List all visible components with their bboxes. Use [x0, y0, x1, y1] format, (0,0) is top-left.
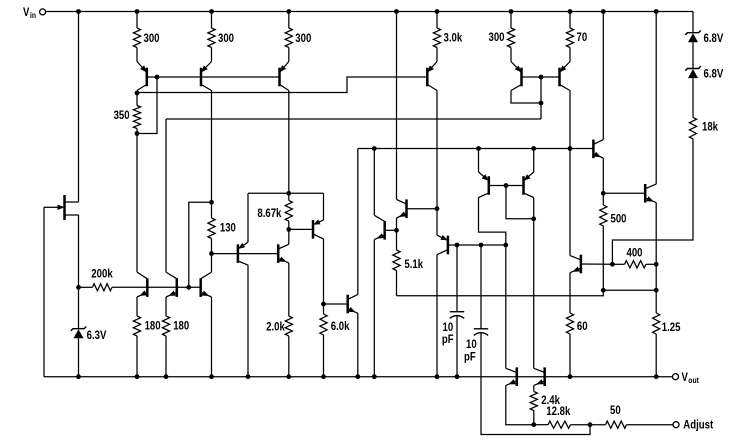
resistor R23 50 — [606, 403, 627, 428]
wire Q17m collector down to Q23 — [533, 198, 535, 369]
wire node line y148 — [358, 148, 594, 150]
node R8 bottom — [135, 131, 140, 136]
transistor Q5 PNP — [511, 62, 522, 91]
svg-text:130: 130 — [220, 221, 236, 235]
svg-text:200k: 200k — [91, 266, 113, 280]
svg-text:in: in — [30, 10, 36, 20]
wire Q22 collector — [505, 245, 507, 368]
wire Q13 emitter down — [357, 313, 359, 376]
resistor R11 200k — [91, 266, 113, 291]
node R18 left — [610, 262, 615, 267]
capacitor C1 10pF — [442, 245, 464, 377]
node R21 adjust — [531, 422, 536, 427]
transistor Q10 PNP — [238, 242, 248, 265]
wire Q11 collector up — [288, 229, 290, 244]
resistor R17 500 — [600, 193, 627, 290]
svg-text:400: 400 — [627, 245, 643, 259]
capacitor C2 10pF — [464, 245, 590, 435]
svg-text:V: V — [682, 370, 688, 384]
node Q1 collector — [135, 91, 140, 96]
node Q15 collector — [372, 146, 377, 151]
transistor Q6 PNP — [560, 62, 571, 91]
node R18 right — [654, 262, 659, 267]
node R9 bottom / Q10 base — [209, 251, 214, 256]
wire Q16 collector jog — [479, 198, 506, 246]
svg-text:V: V — [23, 5, 29, 19]
node R10 top — [286, 191, 291, 196]
wire cross line y119 — [166, 118, 541, 120]
wire R20 to ground — [655, 334, 657, 377]
wire Q18 base line — [448, 244, 506, 246]
wire R15 to ground — [323, 335, 325, 377]
wire base rail tap — [137, 77, 157, 134]
wire Q21 base — [603, 192, 645, 194]
svg-text:300: 300 — [144, 31, 160, 45]
node Q12 collector / Q13 base — [321, 302, 326, 307]
wire R14 to ground — [288, 336, 290, 377]
svg-text:500: 500 — [611, 212, 627, 226]
resistor R5 300 — [489, 12, 515, 62]
svg-text:3.0k: 3.0k — [444, 31, 463, 45]
wire Q10-Q11 base line — [212, 253, 279, 255]
wire Q17m emitter — [533, 149, 535, 173]
node R20 ground — [654, 374, 659, 379]
node Q14 base / Q4 collector — [435, 206, 440, 211]
wire top rail to D1 — [692, 12, 694, 34]
wire Q1 collector to R8 — [136, 91, 138, 106]
svg-text:70: 70 — [577, 30, 588, 44]
wire Q5 collector — [511, 91, 541, 104]
svg-text:8.67k: 8.67k — [257, 206, 281, 220]
node Q18 base / Q22 collector — [503, 243, 508, 248]
transistor Q22 NPN — [506, 367, 517, 386]
resistor R3 300 — [285, 12, 311, 62]
node R14 ground — [286, 374, 291, 379]
transistor Q8 NPN — [166, 272, 177, 297]
node C2 top — [479, 243, 484, 248]
wire Vout rail — [44, 376, 673, 378]
wire base tie down — [540, 77, 542, 119]
wire D1 to D2 — [692, 42, 694, 68]
transistor Q2 PNP — [201, 62, 212, 91]
svg-text:6.8V: 6.8V — [704, 67, 724, 81]
wire R19 to ground — [569, 334, 571, 377]
node D3 ground — [76, 374, 81, 379]
resistor R18 400 — [612, 245, 656, 268]
node 290 right — [654, 288, 659, 293]
wire J1 gate down to ground rail — [43, 207, 45, 376]
wire Q12 base — [289, 228, 313, 230]
svg-text:pF: pF — [442, 332, 454, 346]
terminal Adjust — [673, 418, 713, 432]
svg-text:out: out — [688, 375, 699, 385]
wire R10 box right to Q12 emitter — [323, 193, 325, 220]
transistor Q17m PNP — [524, 172, 534, 198]
transistor Q18 PNP — [437, 235, 448, 255]
wire Q5-Q6 base rail — [522, 76, 560, 78]
transistor J1 JFET — [44, 195, 79, 220]
wire mirror bases — [489, 185, 524, 187]
resistor R9 130 — [208, 202, 236, 253]
transistor Q3 PNP — [280, 62, 289, 91]
node C1 top — [455, 243, 460, 248]
resistor R22 12.8k — [546, 404, 570, 428]
node top rail junction x=603.3 — [601, 9, 606, 14]
wire R10 box left to Q10 emitter — [247, 193, 249, 242]
node R12 ground — [135, 374, 140, 379]
wire Q8 emitter to R13 — [165, 297, 167, 316]
wire Q15 base stub — [385, 229, 397, 231]
node Q16 emitter — [476, 146, 481, 151]
wire base rail y287 — [112, 286, 201, 288]
input terminal Vin — [23, 5, 46, 20]
node Q15 base — [394, 228, 399, 233]
wire R16 bottom to node 290 — [397, 290, 604, 296]
resistor R21 2.4k — [530, 392, 560, 411]
node Q19 emitter / R17 top — [601, 191, 606, 196]
transistor Q11 NPN — [278, 244, 289, 263]
svg-text:180: 180 — [145, 318, 161, 332]
wire R11 left — [79, 286, 93, 288]
wire Vin rail to Q14 collector — [396, 12, 398, 200]
wire Q4 collector to Q18 emitter — [436, 209, 438, 236]
zener D1 6.8V — [685, 31, 723, 46]
node R19 ground — [568, 374, 573, 379]
wire R10 box top — [248, 192, 324, 194]
node Q18 collector ground — [435, 374, 440, 379]
wire D2 to R7 — [692, 78, 694, 117]
wire Q18 collector to ground rail — [436, 255, 438, 377]
node R10 bottom / Q12 base — [286, 227, 291, 232]
transistor Q9 NPN — [201, 272, 212, 297]
transistor Q20 NPN — [570, 255, 581, 274]
resistor R16 5.1k — [393, 230, 423, 295]
wire R21 to Adjust rail — [533, 411, 535, 425]
svg-text:12.8k: 12.8k — [546, 404, 570, 418]
transistor Q19 NPN — [593, 140, 603, 159]
svg-text:180: 180 — [173, 318, 189, 332]
svg-text:Adjust: Adjust — [683, 418, 713, 432]
node R13 ground — [164, 374, 169, 379]
svg-text:6.0k: 6.0k — [331, 319, 350, 333]
transistor Q23 NPN — [534, 367, 545, 386]
wire Q7 emitter to R12 — [136, 297, 138, 316]
wire Q21 emitter down — [655, 203, 657, 265]
wire Q6 collector to Q20 collector — [569, 149, 571, 256]
wire Q11 emitter to R14 — [288, 263, 290, 316]
transistor Q7 NPN — [137, 272, 147, 297]
node Q17m emitter — [531, 146, 536, 151]
wire line y119 left leg down — [165, 119, 167, 272]
transistor Q16 PNP — [479, 172, 489, 198]
wire node 290 segment — [603, 289, 656, 291]
node top rail junction x=656.2 — [654, 9, 659, 14]
node Q17m collector tie — [531, 216, 536, 221]
wire Q12 collector down — [323, 239, 325, 314]
resistor R15 6.0k — [320, 314, 350, 335]
node top rail junction x=211.5 — [209, 9, 214, 14]
wire Q20 base — [581, 263, 613, 265]
wire Q9 emitter down — [211, 297, 213, 377]
wire Q10 collector down — [247, 265, 249, 377]
transistor Q15 NPN — [374, 215, 384, 239]
wire adjust rail mid — [571, 424, 606, 426]
svg-text:18k: 18k — [702, 120, 718, 134]
resistor R8 350 — [114, 106, 141, 129]
wire mirror base to Q17m collector — [506, 186, 534, 219]
node base rail / left leg — [186, 285, 191, 290]
wire J1 source down — [78, 215, 80, 287]
node top rail junction x=570 — [568, 9, 573, 14]
wire Q7 collector — [136, 134, 138, 273]
wire Q16 emitter — [478, 149, 480, 173]
node Q13 emitter ground — [355, 374, 360, 379]
svg-text:300: 300 — [489, 30, 505, 44]
wire Q15 collector up — [373, 149, 375, 216]
resistor R1 300 — [133, 12, 159, 62]
resistor R12 180 — [133, 316, 160, 336]
transistor Q4 PNP — [427, 62, 437, 91]
svg-text:60: 60 — [577, 319, 588, 333]
resistor R20 1.25 — [653, 313, 681, 334]
wire rail to Q21 collector — [655, 12, 657, 185]
node mirror bases — [504, 183, 509, 188]
svg-text:6.8V: 6.8V — [704, 31, 724, 45]
resistor R6 70 — [566, 12, 587, 62]
transistor Q1 PNP — [137, 62, 147, 91]
node top rail junction x=78.5 — [76, 9, 81, 14]
node top rail junction x=288.8 — [286, 9, 291, 14]
transistor Q13 NPN — [348, 294, 358, 313]
wire Q13 base — [324, 303, 348, 305]
wire Q13 collector up — [357, 149, 359, 295]
wire Q14 base — [407, 208, 438, 210]
wire Q14 emitter to Q15 base — [396, 218, 398, 230]
svg-text:300: 300 — [295, 31, 311, 45]
wire R8 bottom node — [136, 129, 138, 134]
svg-text:1.25: 1.25 — [662, 320, 681, 334]
wire Q3 collector down — [288, 91, 290, 194]
wire Q21 emitter to R20 — [655, 264, 657, 313]
resistor R13 180 — [162, 316, 189, 336]
node top rail junction x=396.5 — [394, 9, 399, 14]
node Q5-Q6 base — [539, 75, 544, 80]
resistor R4 3.0k — [433, 12, 462, 62]
wire D3 to ground rail — [78, 338, 80, 376]
zener D3 6.3V — [71, 327, 107, 343]
node Q5 collector tie — [539, 101, 544, 106]
node Q1-Q3 base rail tap — [155, 75, 160, 80]
wire Q1 collector to Q4 base — [137, 77, 427, 93]
wire node to D3 — [78, 287, 80, 329]
node top rail junction x=437 — [435, 9, 440, 14]
svg-text:350: 350 — [114, 108, 130, 122]
transistor Q12 PNP — [313, 219, 324, 239]
wire R13 to ground — [165, 336, 167, 377]
wire adjust rail left — [534, 424, 548, 426]
wire R12 to ground — [136, 336, 138, 377]
wire node to Q7-Q9 base rail — [189, 202, 212, 287]
svg-text:pF: pF — [464, 349, 476, 363]
node Q9 emitter ground — [209, 374, 214, 379]
wire Q20 emitter to R19 — [569, 273, 571, 313]
resistor R19 60 — [566, 313, 587, 334]
wire Vin top rail — [46, 11, 693, 13]
svg-text:5.1k: 5.1k — [404, 257, 423, 271]
wire R7 to node R18 left — [612, 139, 693, 264]
wire Q22 emitter to Adjust rail — [506, 385, 534, 424]
node R15 ground — [321, 374, 326, 379]
node top rail junction x=137 — [135, 9, 140, 14]
wire J1 drain to Vin rail — [78, 12, 80, 203]
wire Q6 collector down — [569, 91, 571, 149]
node J1 source / R11 — [76, 285, 81, 290]
wire Q19 emitter down — [602, 158, 604, 193]
transistor Q14 NPN — [397, 199, 407, 218]
resistor R7 18k — [689, 117, 718, 138]
resistor R14 2.0k — [266, 316, 292, 336]
node Q2 collector / R9 top — [209, 200, 214, 205]
wire rail to Q19 collector — [602, 12, 604, 140]
resistor R2 300 — [208, 12, 234, 62]
node Q6 collector — [568, 146, 573, 151]
zener D2 6.8V — [685, 66, 723, 80]
wire Q23 emitter to R21 — [533, 385, 535, 391]
wire Q4 collector down — [436, 91, 438, 209]
node top rail junction x=511 — [509, 9, 514, 14]
wire Q15 emitter down — [373, 240, 375, 377]
svg-text:6.3V: 6.3V — [87, 328, 107, 342]
wire Q1-Q3 base rail — [147, 76, 280, 78]
node adjust tap — [588, 422, 593, 427]
wire Q2 collector down — [211, 91, 213, 203]
node C1 bottom ground — [455, 374, 460, 379]
transistor Q21 NPN — [645, 184, 656, 203]
svg-text:300: 300 — [218, 31, 234, 45]
terminal Vout — [673, 370, 700, 385]
svg-text:2.0k: 2.0k — [266, 320, 285, 334]
node Q15 emitter ground — [372, 374, 377, 379]
wire adjust rail right — [627, 424, 674, 426]
node R17 bottom — [601, 288, 606, 293]
resistor R10 8.67k — [257, 193, 292, 229]
wire R9 bottom to Q9 collector — [211, 254, 213, 273]
node Q10 collector ground — [246, 374, 251, 379]
svg-text:50: 50 — [610, 403, 621, 417]
